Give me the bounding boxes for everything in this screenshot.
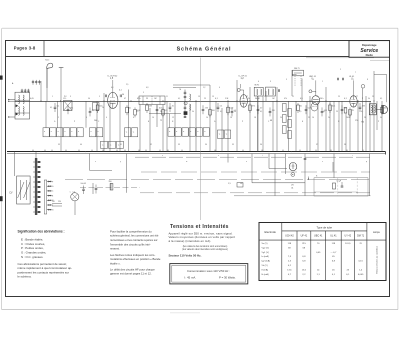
svg-text:G: G: [54, 121, 56, 123]
svg-text:A: A: [12, 82, 14, 85]
svg-text:a·: a·: [190, 131, 192, 133]
wire rectifier anode: [269, 168, 287, 170]
svg-text:31: 31: [120, 144, 122, 146]
caps at U1 sides: [104, 95, 106, 98]
svg-text:Pages 3-8: Pages 3-8: [14, 45, 36, 50]
svg-text:E: E: [148, 121, 150, 123]
svg-text:25: 25: [146, 98, 148, 100]
svg-text:6,8: 6,8: [111, 87, 113, 89]
svg-text:Ia (mA): Ia (mA): [262, 255, 269, 258]
svg-text:7: 7: [355, 72, 356, 74]
pilot lamp: [71, 193, 79, 201]
svg-text:5k: 5k: [192, 111, 194, 113]
svg-text:28: 28: [364, 117, 366, 119]
svg-text:17: 17: [246, 96, 248, 98]
resistor left of U4: [344, 108, 347, 114]
svg-text:10: 10: [152, 117, 154, 119]
svg-text:Lampe: Lampe: [373, 232, 381, 234]
svg-text:9: 9: [143, 92, 144, 94]
svg-text:36: 36: [260, 144, 262, 146]
svg-text:1 M: 1 M: [225, 98, 229, 100]
value box row (left group): [43, 128, 49, 137]
tube U5 UY42 rectifier: [289, 162, 297, 170]
svg-text:Pour faciliter la compréhen: Pour faciliter la compréhension du: [110, 229, 152, 233]
IF transformer 1 : component chain: [184, 90, 186, 119]
page edge left: [1, 28, 3, 309]
svg-text:12: 12: [172, 117, 174, 119]
svg-text:M: M: [180, 89, 182, 91]
svg-text:101,5: 101,5: [345, 243, 351, 245]
svg-text:50 µF: 50 µF: [337, 181, 343, 183]
svg-text:étalée ».: étalée ».: [110, 261, 121, 265]
svg-text:U₁ UCH 42: U₁ UCH 42: [108, 76, 119, 78]
PU input box with X: [64, 101, 73, 111]
small cap on line: [361, 85, 365, 89]
svg-text:25: 25: [338, 96, 340, 98]
svg-text:P: P: [74, 121, 76, 123]
svg-text:5: 5: [362, 98, 363, 100]
svg-text:7: 7: [116, 96, 117, 98]
mains selector: [52, 203, 62, 205]
svg-text:0,1: 0,1: [323, 111, 325, 113]
svg-text:50: 50: [348, 117, 350, 119]
svg-text:0,1: 0,1: [344, 98, 347, 100]
svg-text:0,1: 0,1: [220, 111, 222, 113]
svg-text:0,02: 0,02: [230, 108, 234, 110]
svg-text:Ik (mA): Ik (mA): [262, 273, 269, 276]
table header lines: [282, 230, 367, 232]
svg-text:1,5: 1,5: [110, 78, 114, 80]
svg-text:45: 45: [332, 256, 335, 258]
svg-text:6,8: 6,8: [302, 261, 306, 263]
bus stubs: [32, 150, 34, 152]
svg-text:10 k: 10 k: [332, 106, 335, 108]
svg-text:35: 35: [232, 144, 234, 146]
magic eye DM71: [293, 70, 304, 76]
svg-text:M.F.2: M.F.2: [255, 84, 260, 86]
lower small components: [82, 188, 85, 190]
band switch shaft: [35, 158, 37, 215]
svg-text:26: 26: [346, 117, 348, 119]
svg-text:r: r: [352, 154, 353, 157]
wire to speaker: [374, 73, 387, 75]
svg-text:23: 23: [316, 96, 318, 98]
svg-text:4,7: 4,7: [260, 108, 263, 110]
svg-text:Valeurs relevées au contrôleur: Valeurs relevées au contrôleur: [376, 246, 379, 274]
wire heater bus 2: [141, 171, 370, 173]
svg-text:t: t: [262, 154, 263, 157]
svg-text:100: 100: [212, 110, 215, 112]
svg-text:1M: 1M: [154, 98, 157, 100]
wire AVC bus: [65, 179, 370, 181]
svg-text:0,5: 0,5: [300, 98, 303, 100]
svg-text:U₂ UF 41: U₂ UF 41: [239, 76, 248, 78]
svg-text:11: 11: [166, 96, 168, 98]
resistor stack (AVC divider): [283, 104, 287, 112]
svg-text:118: 118: [288, 243, 292, 245]
svg-text:Vg1 (V): Vg1 (V): [262, 252, 270, 254]
svg-text:24: 24: [328, 117, 330, 119]
svg-text:6: 6: [258, 81, 259, 83]
antenna coil block: [15, 92, 30, 119]
svg-text:21: 21: [292, 96, 294, 98]
svg-text:2 M: 2 M: [362, 106, 365, 108]
aerial trimmers row 1: [32, 80, 34, 85]
svg-text:u: u: [246, 161, 247, 163]
svg-text:If (mA): If (mA): [262, 268, 269, 271]
svg-text:Les flèches noires indiquent: Les flèches noires indiquent les com-: [110, 253, 155, 257]
svg-text:9: 9: [286, 79, 287, 81]
svg-text:5 k: 5 k: [220, 106, 222, 108]
svg-text:Vk (V): Vk (V): [262, 265, 268, 267]
svg-text:Terre: Terre: [45, 59, 49, 62]
svg-text:UY 42: UY 42: [344, 235, 351, 238]
switch contact column: [44, 180, 47, 214]
svg-text:45: 45: [332, 269, 335, 271]
svg-text:0,5: 0,5: [299, 111, 301, 113]
consommation box outer: [170, 264, 248, 284]
svg-text:25: 25: [336, 111, 338, 113]
wire power section bottom: [234, 195, 371, 197]
wire vertical drops lower section: [14, 152, 16, 176]
svg-text:N: N: [338, 121, 340, 123]
svg-text:2,3: 2,3: [288, 261, 292, 263]
svg-text:CV₂: CV₂: [63, 98, 67, 100]
svg-text:G: G: [214, 121, 216, 123]
svg-text:C: C: [52, 191, 54, 193]
svg-text:s: s: [322, 161, 323, 163]
svg-text:U₃: U₃: [312, 79, 315, 81]
svg-text:DM 71: DM 71: [357, 235, 365, 238]
svg-text:a: a: [51, 131, 52, 133]
svg-text:PU: PU: [64, 96, 67, 98]
svg-text:mutations effectuées en positi: mutations effectuées en position « Bande: [110, 257, 161, 261]
svg-text:UF 41: UF 41: [301, 235, 308, 238]
svg-text:22: 22: [308, 117, 310, 119]
header band bottom rule: [6, 56, 390, 58]
left margin registration tick 2: [0, 196, 3, 201]
svg-text:1,5: 1,5: [228, 183, 231, 185]
svg-text:P: P: [52, 181, 54, 183]
svg-text:0,1: 0,1: [361, 111, 363, 113]
resistor/capacitor clusters under HT bus: [54, 106, 57, 108]
svg-text:40: 40: [80, 144, 82, 146]
svg-text:47: 47: [124, 98, 126, 100]
svg-text:8: 8: [133, 117, 134, 119]
svg-text:50: 50: [300, 106, 302, 108]
logo box: [349, 41, 390, 58]
aerial trimmers row 2: [21, 89, 23, 93]
small component box mid-low: [237, 183, 243, 187]
content frame: [5, 40, 390, 42]
svg-text:0,1: 0,1: [178, 98, 180, 100]
svg-text:UBC 41: UBC 41: [314, 235, 323, 238]
svg-text:P = 30 Watts.: P = 30 Watts.: [219, 276, 236, 280]
svg-text:ressent.: ressent.: [110, 247, 120, 251]
loudspeaker: [376, 108, 381, 110]
magic eye leads: [294, 76, 296, 86]
header divider after pages cell: [43, 40, 45, 56]
wire HT feed line: [252, 182, 305, 184]
svg-text:70: 70: [359, 243, 362, 245]
svg-text:215: 215: [302, 243, 306, 245]
svg-text:N : O.C. gravées.: N : O.C. gravées.: [21, 255, 44, 259]
svg-text:6,8: 6,8: [302, 256, 306, 258]
svg-text:y: y: [120, 161, 121, 163]
svg-text:CV: CV: [9, 191, 13, 194]
svg-text:E: E: [52, 195, 54, 197]
svg-text:N: N: [172, 121, 174, 123]
svg-text:2 M: 2 M: [205, 108, 208, 110]
svg-text:25: 25: [204, 98, 206, 100]
svg-text:220: 220: [58, 201, 61, 203]
svg-text:350: 350: [109, 181, 112, 183]
svg-text:a: a: [71, 131, 72, 133]
svg-text:15: 15: [212, 96, 214, 98]
svg-text:3: 3: [70, 96, 71, 98]
svg-text:14: 14: [317, 269, 320, 271]
svg-text:0,1: 0,1: [260, 111, 262, 113]
svg-text:33: 33: [178, 144, 180, 146]
svg-text:8: 8: [367, 79, 368, 81]
svg-text:0,05: 0,05: [30, 98, 34, 100]
svg-text:l'ensemble des circuits qu': l'ensemble des circuits qu'ils inté-: [110, 242, 151, 246]
svg-text:Radio: Radio: [366, 53, 374, 57]
svg-text:4,1: 4,1: [332, 274, 336, 276]
svg-text:50 pF: 50 pF: [255, 98, 261, 100]
svg-text:Vg2 (V): Vg2 (V): [262, 247, 270, 249]
svg-text:Secteur 110 Volts 50 Hz.: Secteur 110 Volts 50 Hz.: [169, 253, 202, 257]
svg-text:Service: Service: [360, 48, 378, 54]
svg-text:47 k: 47 k: [252, 106, 255, 108]
svg-text:20: 20: [280, 117, 282, 119]
svg-text:68: 68: [270, 120, 272, 122]
extra vertical wires: [119, 101, 121, 152]
tube data table frame: [259, 223, 386, 281]
svg-text:a: a: [58, 131, 59, 133]
svg-text:240: 240: [94, 120, 97, 122]
svg-text:Schéma Général: Schéma Général: [177, 47, 232, 53]
svg-text:Va (V): Va (V): [262, 243, 268, 245]
junction dots: [40, 100, 41, 101]
small box near x=93: [93, 103, 100, 111]
chassis dashed box (power section): [314, 178, 368, 196]
svg-text:50: 50: [88, 98, 90, 100]
svg-text:1,5: 1,5: [73, 192, 75, 194]
svg-text:Dépannage: Dépannage: [362, 43, 377, 47]
svg-text:w: w: [186, 161, 188, 163]
svg-text:UBC 41: UBC 41: [309, 76, 317, 78]
svg-text:C: C: [98, 121, 100, 123]
svg-text:118: 118: [332, 243, 336, 245]
antenna: [47, 63, 53, 69]
svg-text:2: 2: [58, 117, 59, 119]
fold line (page centre): [200, 58, 202, 221]
svg-text:S: S: [316, 176, 318, 178]
svg-text:0,1: 0,1: [380, 98, 382, 100]
svg-text:·a: ·a: [219, 133, 221, 135]
tuning capacitor CV box: [17, 176, 31, 204]
svg-text:2,2: 2,2: [302, 274, 306, 276]
svg-text:1,4: 1,4: [359, 269, 363, 271]
tube U3 UBC41 (double envelope): [312, 96, 320, 105]
electrolytic pair right: [333, 183, 336, 189]
svg-text:72: 72: [160, 120, 162, 122]
svg-text:gamme est donné pages 11 et 12: gamme est donné pages 11 et 12.: [110, 272, 152, 276]
svg-text:numérotées et les contacts r: numérotées et les contacts repérés sur: [110, 238, 158, 242]
svg-text:P: P: [378, 121, 380, 123]
svg-text:0,2: 0,2: [288, 265, 292, 267]
value box row (mid group): [125, 128, 131, 137]
antenna mast top bar: [59, 67, 64, 69]
consommation box inner: [172, 265, 246, 282]
svg-text:1,2: 1,2: [203, 87, 205, 89]
svg-text:a: a: [64, 131, 65, 133]
svg-text:10 k: 10 k: [320, 98, 324, 100]
svg-text:a: a: [98, 131, 99, 133]
svg-text:·a: ·a: [133, 131, 135, 133]
svg-text:34: 34: [205, 144, 207, 146]
svg-text:27: 27: [356, 96, 358, 98]
svg-text:30: 30: [380, 117, 382, 119]
svg-text:LR: LR: [291, 185, 294, 187]
svg-text:5: 5: [99, 96, 100, 98]
svg-text:0,45: 0,45: [316, 252, 321, 254]
oscillator coil box: [139, 96, 165, 105]
svg-text:6: 6: [106, 117, 107, 119]
svg-text:0,5: 0,5: [136, 111, 138, 113]
svg-text:13,5: 13,5: [302, 269, 307, 271]
svg-text:4: 4: [219, 87, 220, 89]
svg-text:19: 19: [264, 96, 266, 98]
svg-text:0,1: 0,1: [215, 98, 218, 100]
svg-text:50: 50: [129, 108, 131, 110]
svg-text:6,8: 6,8: [332, 261, 336, 263]
svg-text:L: L: [70, 192, 71, 194]
svg-text:1: 1: [322, 81, 323, 83]
svg-text:0,7: 0,7: [288, 274, 292, 276]
svg-text:1,1: 1,1: [317, 274, 321, 276]
svg-text:P: P: [242, 121, 244, 123]
svg-text:UL 41: UL 41: [330, 235, 337, 238]
svg-text:3: 3: [270, 81, 271, 83]
svg-text:x: x: [95, 161, 96, 163]
svg-text:v: v: [218, 155, 219, 157]
svg-text:37: 37: [316, 144, 318, 146]
svg-text:(les valeurs des intensités so: (les valeurs des intensités sont soulign…: [182, 248, 228, 251]
svg-text:38: 38: [344, 144, 346, 146]
svg-text:100: 100: [384, 108, 387, 110]
svg-text:20: 20: [160, 111, 162, 113]
svg-text:2k: 2k: [102, 107, 104, 109]
svg-text:4: 4: [86, 117, 87, 119]
svg-text:47 k: 47 k: [137, 98, 141, 100]
svg-text:a: a: [91, 131, 92, 133]
junction tick: [308, 177, 310, 180]
svg-text:Type de tube: Type de tube: [317, 225, 333, 229]
tube U4 UL41: [350, 96, 357, 107]
svg-text:LR: LR: [240, 183, 243, 185]
svg-text:18: 18: [254, 117, 256, 119]
svg-text:2: 2: [340, 69, 341, 71]
page edge top: [2, 27, 398, 29]
svg-text:0,1: 0,1: [50, 107, 52, 109]
svg-text:G: G: [52, 186, 54, 188]
svg-text:2k: 2k: [248, 98, 250, 100]
svg-text:Le débit des circuits HF pour: Le débit des circuits HF pour chaque: [110, 267, 155, 271]
left margin registration tick 1: [0, 76, 3, 80]
wire heater bus 1: [135, 156, 372, 158]
faint stray mark below page: [170, 311, 200, 314]
svg-text:q: q: [366, 161, 367, 163]
svg-text:Tensions et Intensités: Tensions et Intensités: [170, 224, 229, 230]
svg-text:·a: ·a: [226, 133, 228, 135]
wire vertical drops top section: [40, 81, 42, 101]
svg-text:1M: 1M: [272, 98, 275, 100]
svg-text:·a: ·a: [102, 145, 104, 147]
svg-text:47k: 47k: [284, 98, 287, 100]
svg-text:16: 16: [230, 117, 232, 119]
svg-text:UL 41: UL 41: [349, 76, 355, 78]
svg-text:U₄: U₄: [351, 79, 354, 81]
svg-text:a: a: [44, 131, 45, 133]
svg-text:à la masse) (intensités en mA): à la masse) (intensités en mA).: [169, 239, 212, 243]
page edge bottom: [2, 309, 398, 311]
grid cap connector U2: [237, 89, 240, 92]
svg-text:0,5: 0,5: [344, 108, 347, 110]
grid cap connector U3: [309, 90, 312, 93]
svg-text:50: 50: [122, 94, 124, 96]
svg-text:E: E: [302, 121, 304, 123]
svg-text:7,3: 7,3: [288, 256, 292, 258]
svg-text:5k: 5k: [368, 98, 370, 100]
svg-text:25: 25: [172, 106, 174, 108]
svg-text:13: 13: [198, 96, 200, 98]
svg-text:0,1: 0,1: [119, 90, 122, 92]
svg-text:0,1: 0,1: [57, 106, 60, 108]
caps near U4 top: [337, 78, 339, 81]
svg-text:I : 45 mA.: I : 45 mA.: [184, 276, 196, 280]
svg-text:14: 14: [206, 117, 208, 119]
wire top right run: [370, 59, 389, 61]
svg-text:2x0,05: 2x0,05: [81, 183, 86, 185]
table column lines: [281, 223, 283, 281]
svg-text:0,005: 0,005: [358, 274, 364, 276]
svg-text:a·: a·: [176, 131, 178, 133]
svg-text:50: 50: [234, 111, 236, 113]
top right coupling: [173, 84, 210, 86]
wire main HT bus y=101: [15, 101, 371, 103]
wire chassis ground bus 2: [7, 153, 386, 155]
tube U2 UF41: [240, 95, 247, 108]
page edge right: [397, 28, 399, 309]
secondary value box row y=141: [101, 141, 108, 148]
svg-text:DM 71: DM 71: [294, 68, 300, 70]
svg-text:schéma général, les connexio: schéma général, les connexions ont été: [110, 234, 159, 238]
wire dial lamp bus: [80, 186, 140, 188]
IF transformer 2 (two cans): [254, 87, 263, 96]
svg-text:1,2: 1,2: [241, 78, 245, 80]
svg-text:a·: a·: [169, 131, 171, 133]
svg-text:32: 32: [150, 144, 152, 146]
svg-text:Signification des abréviations: Signification des abréviations :: [18, 230, 65, 234]
svg-text:Ig2 (mA): Ig2 (mA): [262, 260, 271, 263]
svg-text:Electrode: Electrode: [265, 230, 277, 234]
svg-text:13,5: 13,5: [287, 269, 292, 271]
svg-text:2,5: 2,5: [126, 84, 128, 86]
svg-text:39: 39: [58, 144, 60, 146]
svg-text:220: 220: [272, 110, 275, 112]
